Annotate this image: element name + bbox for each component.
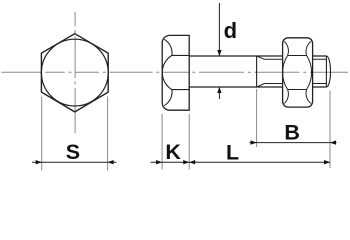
svg-text:L: L	[226, 140, 239, 164]
svg-text:B: B	[284, 120, 300, 144]
svg-text:d: d	[224, 18, 237, 43]
svg-text:K: K	[165, 140, 181, 164]
svg-text:S: S	[66, 140, 80, 164]
